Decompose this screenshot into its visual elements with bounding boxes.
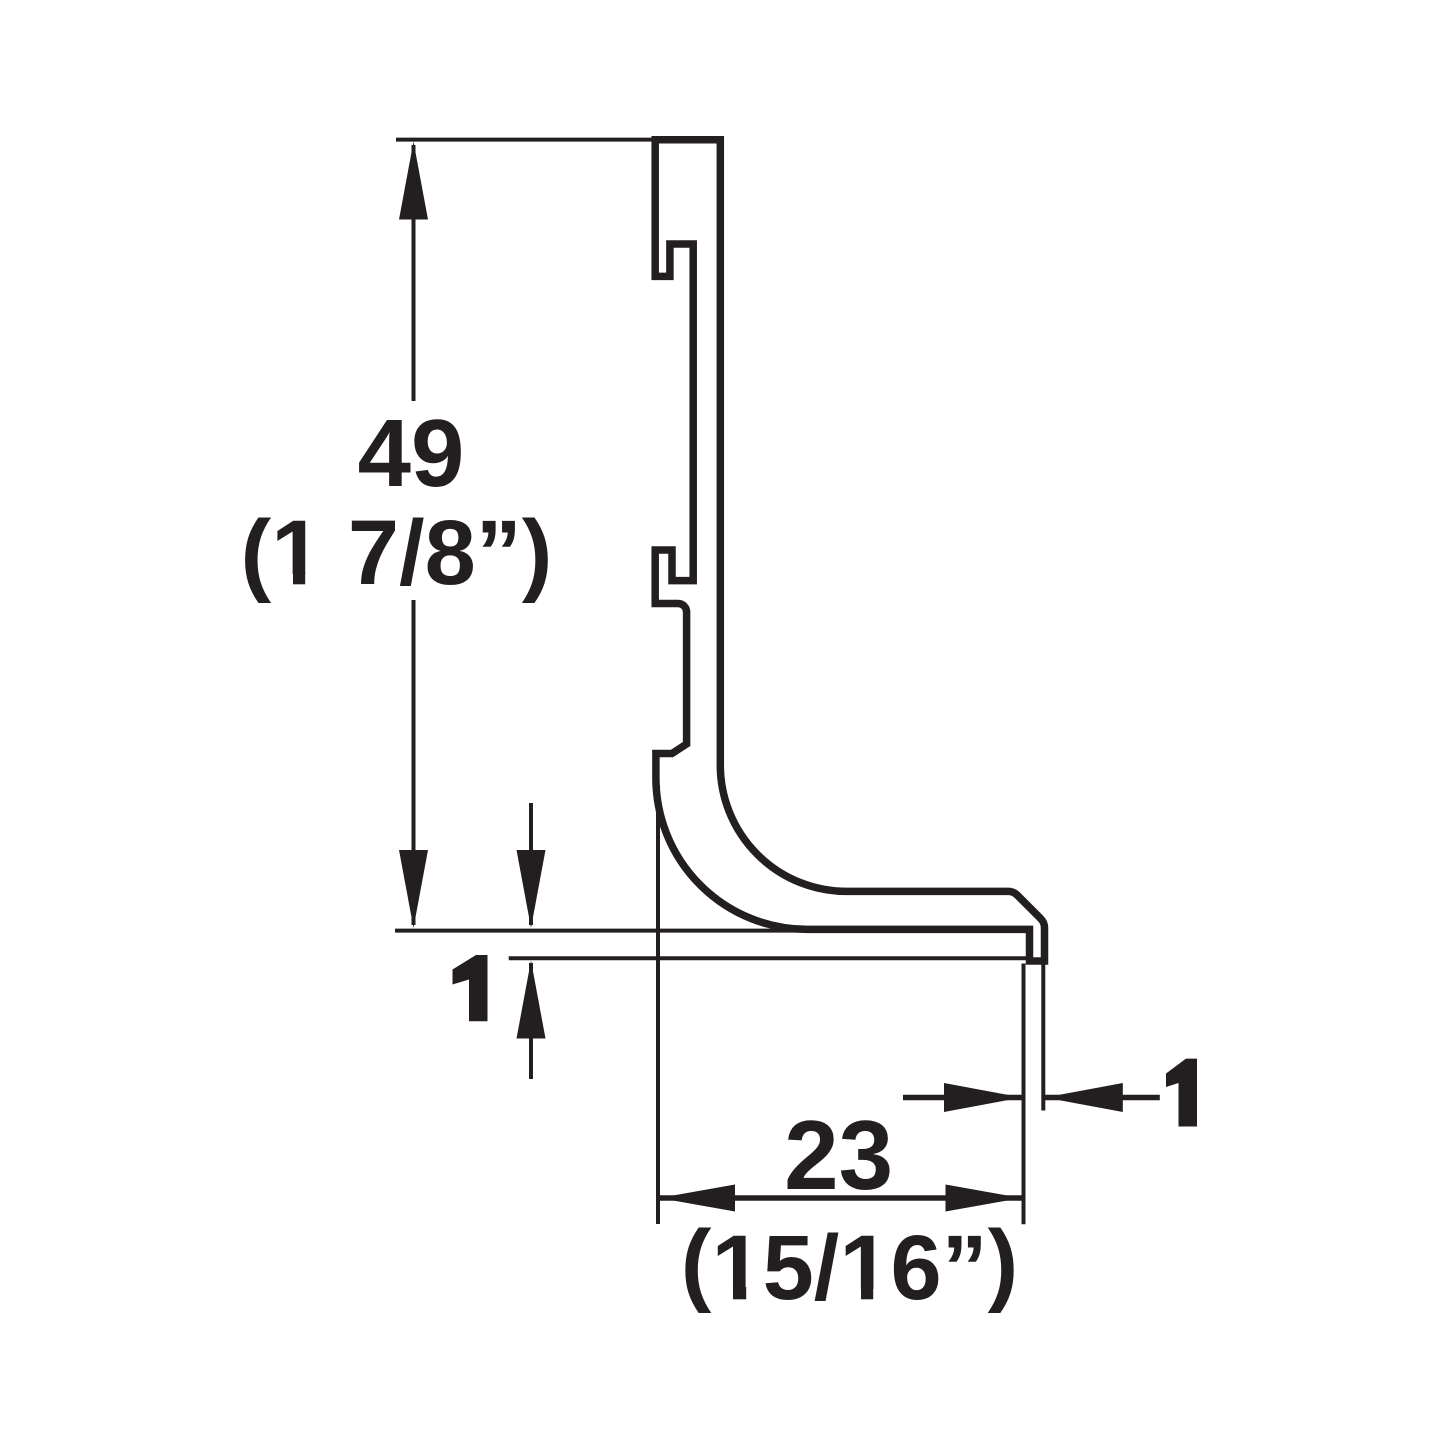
svg-text:23: 23 [784,1100,893,1210]
svg-text:(1 7/8”): (1 7/8”) [241,502,553,604]
svg-text:(15/16”): (15/16”) [681,1212,1019,1319]
svg-text:49: 49 [358,400,465,507]
